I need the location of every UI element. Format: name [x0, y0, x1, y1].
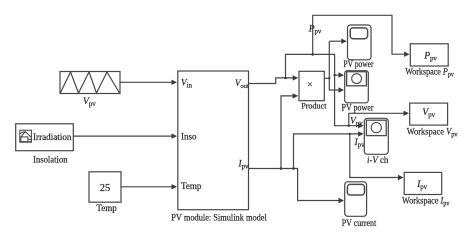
svg-text:Irradiation: Irradiation	[33, 132, 72, 142]
svg-text:PV module: Simulink model: PV module: Simulink model	[171, 214, 267, 224]
svg-text:PV power: PV power	[342, 103, 375, 113]
svg-text:Inso: Inso	[181, 132, 197, 142]
svg-text:PV power: PV power	[344, 60, 375, 70]
svg-text:Workspace Ipv: Workspace Ipv	[402, 196, 450, 207]
svg-text:×: ×	[307, 81, 312, 91]
svg-text:Product: Product	[301, 101, 327, 110]
svg-text:PV current: PV current	[342, 219, 377, 229]
svg-text:Temp: Temp	[181, 181, 202, 191]
svg-text:Workspace Ppv: Workspace Ppv	[405, 68, 454, 79]
svg-text:Workspace Vpv: Workspace Vpv	[407, 127, 458, 138]
svg-text:Insolation: Insolation	[33, 155, 68, 165]
svg-text:i-V ch: i-V ch	[367, 156, 389, 166]
svg-text:25: 25	[100, 183, 111, 194]
svg-text:Temp: Temp	[96, 204, 117, 214]
